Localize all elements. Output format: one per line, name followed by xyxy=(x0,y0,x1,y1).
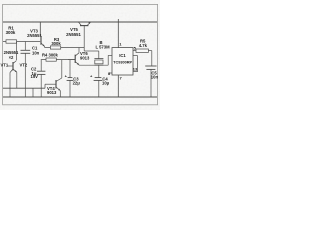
svg-text:15V: 15V xyxy=(31,74,39,79)
wire left mid bus xyxy=(3,87,45,89)
resistor R3 with wire xyxy=(45,37,84,49)
resistor R1 xyxy=(6,26,17,44)
transistor VT3 xyxy=(40,22,44,46)
label VT4 9013 xyxy=(47,86,57,95)
svg-text:R4 300k: R4 300k xyxy=(42,53,59,58)
wire VT2 emitter down xyxy=(16,72,18,88)
wire base line of VT3 from left border xyxy=(3,41,40,43)
capacitor C3 polarized xyxy=(65,60,81,97)
transistor VT6 xyxy=(68,53,79,65)
wire VT3 emitter to R3 xyxy=(44,46,46,47)
wire VT6 emitter to resonator bottom xyxy=(79,55,112,65)
svg-text:9013: 9013 xyxy=(80,55,90,60)
svg-text:2N5551: 2N5551 xyxy=(66,32,81,37)
pin 8 stub xyxy=(108,71,112,76)
svg-text:VT2: VT2 xyxy=(20,62,28,67)
wire stub bus to ground xyxy=(32,88,34,97)
wire VT4 emitter to ground xyxy=(59,91,61,97)
wire VT1 emitter to mid bus xyxy=(9,73,11,98)
svg-text:300k: 300k xyxy=(51,41,61,46)
svg-text:300k: 300k xyxy=(6,30,16,35)
svg-text:×2: ×2 xyxy=(9,55,14,60)
svg-text:9013: 9013 xyxy=(47,90,57,95)
wire top supply rail xyxy=(3,21,157,23)
wire bottom ground rail xyxy=(3,96,157,98)
svg-text:22μ: 22μ xyxy=(73,81,81,86)
label VT6 9013 xyxy=(80,51,90,60)
svg-text:L 573M: L 573M xyxy=(95,45,110,50)
transistor VT5 xyxy=(78,22,90,51)
svg-text:13: 13 xyxy=(133,67,138,72)
svg-text:10n: 10n xyxy=(151,75,159,80)
transistor VT4 xyxy=(45,78,62,91)
resonator B1 xyxy=(94,51,103,78)
label B L573M xyxy=(95,40,110,50)
capacitor C5 xyxy=(145,51,158,97)
svg-text:TC9300RP: TC9300RP xyxy=(113,60,133,64)
svg-text:10n: 10n xyxy=(32,51,40,56)
svg-text:4.7k: 4.7k xyxy=(139,43,148,48)
pin loop 5 to 13 on IC right xyxy=(133,56,138,72)
pin 5 stub with resistor R5 xyxy=(133,39,152,53)
label 2N5551 x2 for VT1 VT2 xyxy=(4,50,19,60)
svg-text:IC1: IC1 xyxy=(119,53,126,58)
wire IC pin7 to ground rail xyxy=(117,75,119,97)
capacitor C2 xyxy=(31,60,46,97)
capacitor C4 polarized xyxy=(90,73,110,97)
label VT5 2N5551 xyxy=(66,27,81,37)
wire IC pin1 to top rail xyxy=(117,19,119,48)
resistor R4 with wire xyxy=(41,53,75,62)
capacitor C1 xyxy=(21,42,40,98)
IC1 box xyxy=(112,48,133,75)
border frame xyxy=(3,4,158,104)
label VT3 2N5551 xyxy=(27,28,42,38)
wire VT6 collector to R3 net xyxy=(78,48,80,53)
wire resonator top link xyxy=(84,50,99,52)
svg-text:VT1: VT1 xyxy=(1,62,9,67)
transistor VT1 VT2 pair xyxy=(7,61,17,73)
wire VT4 collector up to R4 net xyxy=(61,60,63,78)
svg-text:10μ: 10μ xyxy=(102,81,110,86)
node stub under R1 wire xyxy=(16,42,18,60)
